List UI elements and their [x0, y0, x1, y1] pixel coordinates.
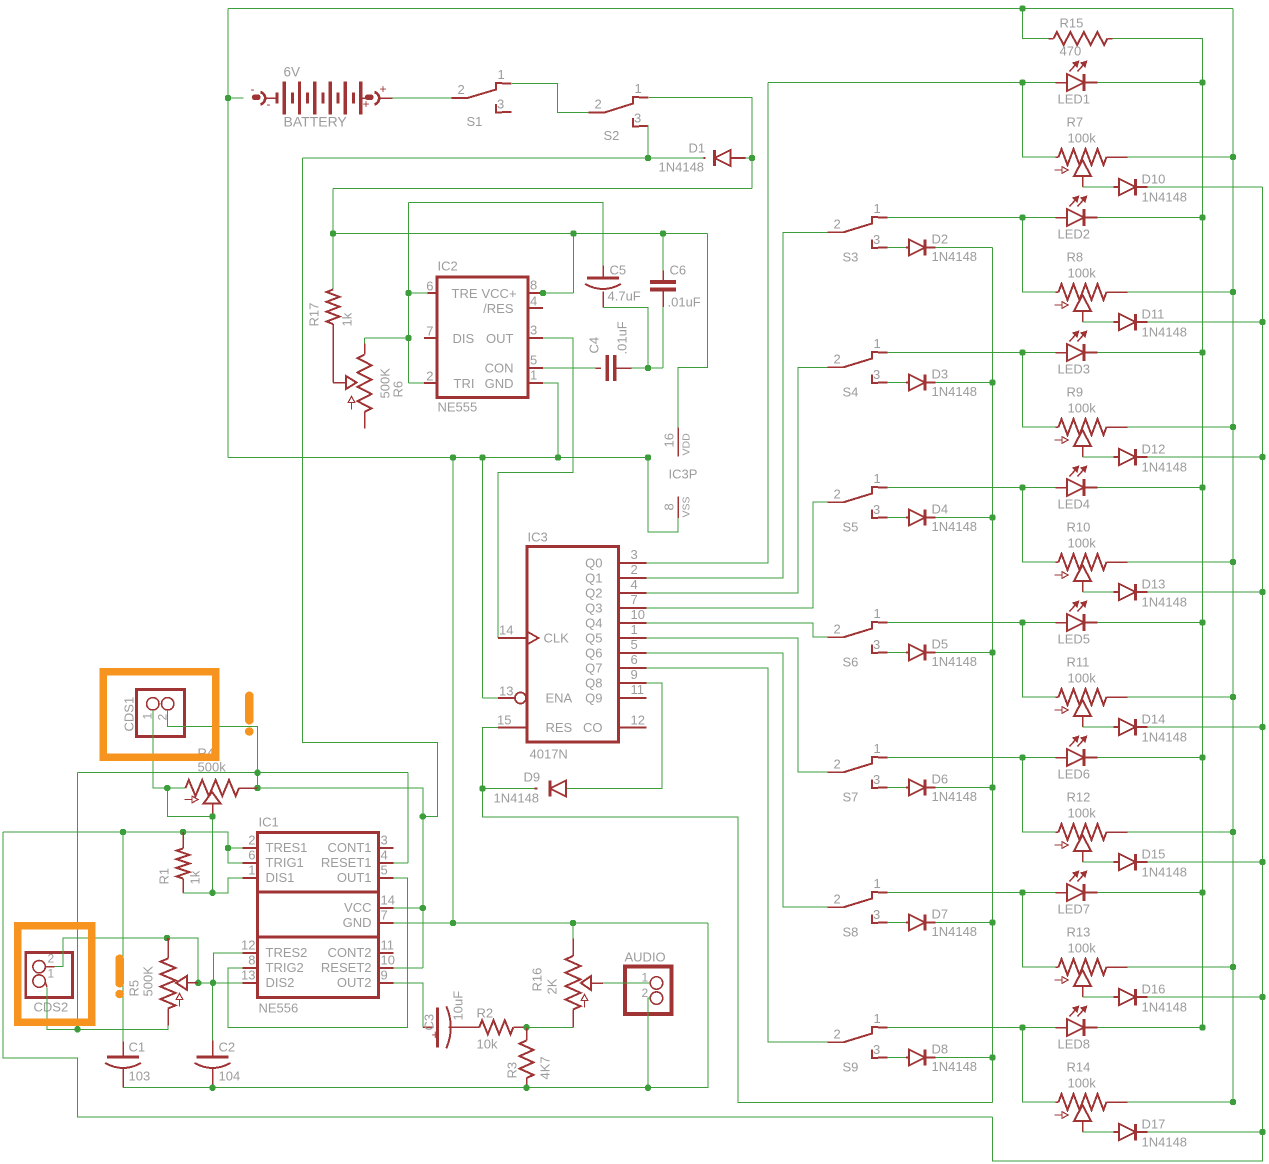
svg-text:TRI: TRI — [454, 376, 475, 391]
wire x408 IC2 left pins feed — [408, 203, 410, 384]
svg-text:12: 12 — [631, 713, 645, 728]
svg-text:CON: CON — [485, 361, 514, 376]
svg-text:D7: D7 — [932, 907, 949, 922]
svg-text:8: 8 — [662, 503, 677, 510]
wire battery plus to S1 — [393, 97, 452, 99]
svg-text:3: 3 — [497, 97, 504, 112]
wire pot R14 loop — [1023, 1028, 1056, 1103]
svg-text:S6: S6 — [843, 655, 859, 670]
highlight box CDS1 — [103, 672, 216, 758]
svg-text:-: - — [267, 97, 271, 111]
svg-text:CONT1: CONT1 — [327, 840, 371, 855]
svg-text:4017N: 4017N — [530, 747, 568, 762]
LED LED4 — [1067, 479, 1084, 496]
svg-text:D3: D3 — [932, 367, 949, 382]
svg-text:D2: D2 — [932, 232, 949, 247]
diode D17 1N4148 — [1114, 1131, 1120, 1133]
svg-text:AUDIO: AUDIO — [625, 950, 666, 965]
wire LED4 row — [888, 487, 1023, 489]
svg-text:OUT2: OUT2 — [337, 975, 372, 990]
svg-text:1N4148: 1N4148 — [1142, 460, 1188, 475]
svg-text:3: 3 — [873, 772, 880, 787]
diode D10 1N4148 — [1114, 186, 1120, 188]
capacitor C5 4.7uF — [602, 203, 604, 266]
svg-text:LED1: LED1 — [1058, 92, 1091, 107]
svg-text:CLK: CLK — [544, 631, 570, 646]
svg-text:100k: 100k — [1068, 1076, 1097, 1091]
svg-text:+: + — [380, 82, 387, 96]
svg-text:Q9: Q9 — [585, 691, 602, 706]
svg-text:CONT2: CONT2 — [327, 945, 371, 960]
wire minus rail x1232 — [1232, 9, 1234, 1103]
wire LED1 feed y82 — [768, 82, 1023, 84]
svg-text:4: 4 — [381, 848, 388, 863]
svg-text:R9: R9 — [1067, 385, 1084, 400]
capacitor C4 .01uF — [605, 355, 609, 381]
diode D5 1N4148 — [888, 652, 907, 654]
wire Q7 to S9 — [647, 668, 828, 1042]
svg-text:IC3: IC3 — [528, 530, 548, 545]
svg-text:+: + — [363, 97, 370, 111]
svg-text:9: 9 — [381, 968, 388, 983]
diode D8 1N4148 — [888, 1057, 907, 1059]
diode D6 1N4148 — [888, 787, 907, 789]
svg-text:GND: GND — [343, 915, 372, 930]
LED LED5 — [1067, 614, 1084, 631]
diode D11 1N4148 — [1114, 321, 1120, 323]
wire IC2 pin6 — [409, 292, 428, 294]
wire RESET1 feed x407 — [407, 773, 409, 863]
wire RESET1 — [379, 862, 394, 864]
wire D1 bottom return y188 — [333, 188, 752, 190]
wire IC2 pin8 VCC — [528, 292, 540, 294]
svg-text:3: 3 — [873, 502, 880, 517]
wire cathode rail x1202 — [1202, 39, 1204, 1028]
svg-text:TRE: TRE — [452, 286, 478, 301]
svg-text:4.7uF: 4.7uF — [608, 289, 641, 304]
wire Q6 to S8 — [647, 653, 828, 907]
svg-text:6: 6 — [426, 279, 433, 294]
battery BATTERY 6V — [228, 97, 244, 99]
svg-text:GND: GND — [485, 376, 514, 391]
wire C2 from DIS2 node — [212, 983, 214, 1041]
wire tap to D15 — [1082, 851, 1084, 862]
wire DIS2 line — [243, 982, 258, 984]
svg-text:2: 2 — [834, 756, 841, 771]
switch S2 — [589, 112, 605, 114]
svg-text:D12: D12 — [1142, 442, 1166, 457]
wire LED1 row — [1019, 79, 1025, 85]
svg-text:1: 1 — [642, 971, 649, 985]
svg-text:1: 1 — [48, 967, 55, 981]
wire IC2 pin2 — [409, 382, 425, 384]
svg-text:S9: S9 — [843, 1060, 859, 1075]
wire pot R7 loop — [1023, 83, 1056, 158]
wire diode return rail x1262 — [993, 187, 1263, 1161]
wire LED6 row — [888, 757, 1023, 759]
wire pot R10 loop — [1023, 488, 1056, 563]
svg-text:9: 9 — [631, 667, 638, 682]
svg-text:/RES: /RES — [483, 301, 514, 316]
diode D7 1N4148 — [888, 922, 907, 924]
svg-text:1N4148: 1N4148 — [932, 789, 978, 804]
svg-text:1N4148: 1N4148 — [932, 924, 978, 939]
svg-text:1: 1 — [631, 622, 638, 637]
svg-text:3: 3 — [873, 1042, 880, 1057]
svg-text:NE555: NE555 — [438, 400, 478, 415]
wire CDS1 pin1 down — [153, 710, 168, 788]
svg-text:R14: R14 — [1067, 1060, 1091, 1075]
svg-text:1N4148: 1N4148 — [1142, 1135, 1188, 1150]
svg-text:1N4148: 1N4148 — [659, 160, 705, 175]
trimmer R10 100k — [1056, 561, 1059, 563]
svg-text:C6: C6 — [670, 263, 687, 278]
wire IC2 pin1 GND down to rail — [528, 382, 543, 384]
svg-text:10: 10 — [631, 607, 645, 622]
wire VCC rail y233 — [332, 189, 334, 290]
switch S8 — [828, 906, 844, 908]
svg-text:C3: C3 — [422, 1014, 437, 1031]
wire IC2 pin5 CON via C4 — [528, 367, 543, 369]
svg-text:1N4148: 1N4148 — [932, 519, 978, 534]
wire R5 bottom / CDS2 pin1 — [167, 1009, 169, 1026]
svg-text:D4: D4 — [932, 502, 949, 517]
svg-text:Q5: Q5 — [585, 631, 602, 646]
wire Q8 loop to D9 — [567, 683, 663, 789]
svg-text:OUT: OUT — [486, 331, 514, 346]
resistor R3 4K7 — [526, 1027, 528, 1040]
svg-text:7: 7 — [381, 908, 388, 923]
svg-text:D17: D17 — [1142, 1117, 1166, 1132]
diode D2 1N4148 — [888, 247, 907, 249]
wire VCC pin14 — [379, 907, 394, 909]
svg-text:1k: 1k — [340, 312, 355, 326]
svg-text:15: 15 — [497, 713, 511, 728]
svg-text:500k: 500k — [198, 760, 227, 775]
wire CDS1 pin2 net y772 — [78, 772, 409, 774]
wire AUDIO pin2 down — [648, 998, 650, 1088]
capacitor C2 104 — [197, 1056, 229, 1059]
wire x77 down to CDS2 area — [77, 773, 79, 1030]
wire left border down to GND rail — [227, 9, 229, 458]
diode D9 1N4148 — [479, 785, 485, 791]
trimmer R6 500k — [346, 376, 357, 389]
svg-text:RESET2: RESET2 — [321, 960, 372, 975]
svg-text:LED8: LED8 — [1058, 1037, 1091, 1052]
svg-text:1: 1 — [874, 606, 881, 621]
wire GND pin7 — [379, 922, 394, 924]
wire VCC x422 down — [422, 817, 424, 968]
svg-text:VCC: VCC — [344, 900, 371, 915]
switch S4 — [828, 366, 844, 368]
wire R4 tap down — [212, 804, 214, 817]
pin CONT1 stub — [379, 847, 394, 849]
svg-text:1: 1 — [498, 67, 505, 82]
svg-text:100k: 100k — [1068, 941, 1097, 956]
wire OUT1 down to TRIG2 loop — [379, 877, 394, 879]
svg-text:D11: D11 — [1142, 307, 1165, 322]
diode D14 1N4148 — [1114, 726, 1120, 728]
svg-text:.01uF: .01uF — [615, 321, 630, 354]
wire Q2 to S4 — [647, 367, 828, 593]
svg-text:11: 11 — [381, 938, 395, 953]
wire RES net down to x737 loop — [483, 789, 993, 1103]
svg-text:R6: R6 — [391, 381, 406, 398]
wire Q4 to S6 — [647, 623, 828, 637]
svg-text:VDD: VDD — [681, 433, 693, 456]
svg-text:3: 3 — [530, 323, 537, 338]
switch S5 — [828, 501, 844, 503]
svg-text:3: 3 — [873, 907, 880, 922]
svg-text:1: 1 — [530, 368, 537, 383]
trimmer R12 100k — [1056, 831, 1059, 833]
svg-text:3: 3 — [634, 111, 641, 126]
diode D1 1N4148 — [704, 157, 706, 159]
trimmer R16 2k — [572, 923, 574, 939]
svg-text:100k: 100k — [1068, 671, 1097, 686]
svg-text:CDS1: CDS1 — [122, 697, 137, 732]
svg-text:1: 1 — [874, 1011, 881, 1026]
wire pot R13 loop — [1023, 893, 1056, 968]
svg-text:11: 11 — [631, 682, 645, 697]
svg-text:2: 2 — [248, 833, 255, 848]
diode D16 1N4148 — [1114, 996, 1120, 998]
svg-text:6: 6 — [631, 652, 638, 667]
svg-text:D8: D8 — [932, 1042, 949, 1057]
capacitor C3 10uF — [423, 1026, 434, 1028]
svg-text:2: 2 — [834, 1026, 841, 1041]
svg-text:1N4148: 1N4148 — [1142, 595, 1188, 610]
svg-text:470: 470 — [1060, 44, 1082, 59]
svg-text:4: 4 — [530, 294, 537, 309]
svg-text:1N4148: 1N4148 — [932, 249, 978, 264]
wire R4 right to VCC node — [258, 788, 423, 817]
switch S3 — [828, 231, 844, 233]
trimmer R5 500k — [167, 938, 168, 941]
svg-text:1: 1 — [635, 81, 642, 96]
svg-text:14: 14 — [499, 623, 513, 638]
wire pot R12 loop — [1023, 758, 1056, 833]
svg-text:2K: 2K — [545, 978, 560, 994]
svg-text:4K7: 4K7 — [538, 1056, 553, 1079]
wire pot R11 loop — [1023, 623, 1056, 698]
svg-text:8: 8 — [248, 953, 255, 968]
svg-text:10uF: 10uF — [451, 991, 466, 1021]
pin IC3 CLK — [527, 632, 539, 645]
wire LED2 row — [888, 217, 1023, 219]
svg-text:2: 2 — [834, 351, 841, 366]
diode D4 1N4148 — [888, 517, 907, 519]
wire inner rect y202 — [409, 202, 604, 204]
svg-text:1: 1 — [248, 863, 255, 878]
switch S6 — [828, 636, 844, 638]
svg-text:R5: R5 — [127, 980, 142, 997]
svg-text:R1: R1 — [157, 868, 172, 885]
switch S9 — [828, 1041, 844, 1043]
svg-text:R13: R13 — [1067, 925, 1091, 940]
op IC1 NE556 box — [258, 833, 379, 998]
svg-text:S3: S3 — [843, 250, 859, 265]
resistor R15 470 — [1023, 9, 1049, 39]
svg-text:R2: R2 — [477, 1006, 494, 1021]
svg-text:DIS2: DIS2 — [266, 975, 295, 990]
wire R16 wiper to AUDIO pin1 — [603, 982, 650, 984]
svg-text:Q2: Q2 — [585, 586, 602, 601]
svg-text:14: 14 — [381, 893, 395, 908]
svg-text:103: 103 — [129, 1069, 151, 1084]
svg-text:R7: R7 — [1067, 115, 1084, 130]
svg-text:DIS: DIS — [453, 331, 475, 346]
svg-text:.01uF: .01uF — [668, 295, 701, 310]
svg-text:8: 8 — [530, 278, 537, 293]
svg-text:12: 12 — [241, 938, 255, 953]
svg-text:-: - — [251, 82, 255, 96]
svg-text:Q6: Q6 — [585, 646, 602, 661]
svg-text:6: 6 — [248, 848, 255, 863]
svg-text:6V: 6V — [284, 65, 301, 80]
connector CDS2 — [26, 953, 73, 998]
svg-text:13: 13 — [241, 968, 255, 983]
node battery junction — [225, 95, 231, 101]
wire ENA feed from rail — [482, 458, 484, 699]
connector CDS1 — [137, 690, 185, 737]
svg-text:1N4148: 1N4148 — [1142, 325, 1188, 340]
wire diode bus x992 — [992, 248, 994, 1103]
connector AUDIO — [625, 967, 672, 1015]
svg-text:LED6: LED6 — [1058, 767, 1091, 782]
svg-text:1k: 1k — [188, 870, 203, 884]
resistor R2 10k — [479, 1020, 513, 1034]
svg-text:IC1: IC1 — [259, 815, 279, 830]
svg-text:16: 16 — [662, 433, 677, 447]
wire Q0 to LED1 row — [647, 83, 769, 564]
trimmer R7 100k — [1056, 156, 1059, 158]
svg-text:LED2: LED2 — [1058, 227, 1091, 242]
svg-text:2: 2 — [426, 369, 433, 384]
wire LED8 row — [888, 1027, 1023, 1029]
svg-text:2: 2 — [834, 891, 841, 906]
svg-text:D5: D5 — [932, 637, 949, 652]
svg-text:R17: R17 — [307, 303, 322, 327]
svg-text:RES: RES — [546, 720, 573, 735]
svg-text:1: 1 — [874, 336, 881, 351]
svg-text:R11: R11 — [1067, 655, 1090, 670]
wire x302 long loop to R4 area — [303, 158, 438, 817]
svg-text:S8: S8 — [843, 925, 859, 940]
svg-text:D6: D6 — [932, 772, 949, 787]
resistor R1 1k — [182, 832, 184, 849]
svg-text:R15: R15 — [1060, 16, 1084, 31]
svg-text:C5: C5 — [610, 263, 627, 278]
svg-text:Q7: Q7 — [585, 661, 602, 676]
wire R2 node to R16 — [527, 1026, 574, 1028]
diode D12 1N4148 — [1114, 456, 1120, 458]
switch S7 — [828, 771, 844, 773]
LED LED1 — [1067, 74, 1084, 91]
svg-text:D14: D14 — [1142, 712, 1166, 727]
svg-text:DIS1: DIS1 — [266, 870, 295, 885]
wire pot R8 loop — [1023, 218, 1056, 293]
svg-text:CDS2: CDS2 — [34, 1000, 69, 1015]
svg-text:S7: S7 — [843, 790, 859, 805]
wire OUT2 to C3 — [379, 982, 394, 984]
svg-text:2: 2 — [458, 82, 465, 97]
svg-text:TRIG1: TRIG1 — [266, 855, 304, 870]
pin CONT2 stub — [379, 952, 394, 954]
svg-text:C2: C2 — [219, 1040, 236, 1055]
svg-text:10: 10 — [381, 953, 395, 968]
svg-text:R3: R3 — [505, 1062, 520, 1079]
wire pot R9 loop — [1023, 353, 1056, 428]
svg-text:100k: 100k — [1068, 401, 1097, 416]
svg-text:S4: S4 — [843, 385, 859, 400]
wire TRES2 down to DIS2 node — [243, 952, 258, 954]
svg-text:Q8: Q8 — [585, 676, 602, 691]
svg-text:1: 1 — [874, 201, 881, 216]
svg-text:1N4148: 1N4148 — [932, 384, 978, 399]
svg-text:2: 2 — [834, 216, 841, 231]
diode D15 1N4148 — [1114, 861, 1120, 863]
svg-text:1N4148: 1N4148 — [494, 791, 540, 806]
wire RESET2 — [379, 967, 394, 969]
pin IC2 pin4 /RES stub — [528, 307, 543, 309]
svg-text:10k: 10k — [477, 1037, 498, 1052]
wire tap to D12 — [1082, 446, 1084, 457]
svg-text:4: 4 — [631, 577, 638, 592]
wire tap to D13 — [1082, 581, 1084, 592]
svg-text:2: 2 — [642, 986, 649, 1000]
resistor R17 1k — [327, 290, 340, 325]
svg-text:5: 5 — [530, 353, 537, 368]
svg-text:OUT1: OUT1 — [337, 870, 372, 885]
svg-text:ENA: ENA — [546, 691, 573, 706]
svg-text:1: 1 — [874, 471, 881, 486]
trimmer R11 100k — [1056, 696, 1059, 698]
svg-text:100k: 100k — [1068, 536, 1097, 551]
wire DIS1 — [213, 878, 243, 893]
svg-text:1N4148: 1N4148 — [1142, 190, 1188, 205]
wire S2 pin3 down to D1 line — [647, 125, 649, 158]
wire GND rail y457 — [228, 457, 648, 459]
svg-text:3: 3 — [873, 637, 880, 652]
svg-text:1: 1 — [874, 876, 881, 891]
svg-text:BATTERY: BATTERY — [284, 114, 348, 130]
svg-text:Q4: Q4 — [585, 616, 602, 631]
wire IC2 pin7 — [424, 337, 437, 339]
svg-text:D1: D1 — [689, 141, 706, 156]
svg-text:5: 5 — [381, 863, 388, 878]
svg-text:IC2: IC2 — [438, 259, 458, 274]
svg-text:1N4148: 1N4148 — [1142, 730, 1188, 745]
svg-text:104: 104 — [219, 1069, 241, 1084]
svg-text:D15: D15 — [1142, 847, 1166, 862]
power IC3P VDD pin 16 — [677, 428, 679, 457]
wire Q3 to S5 — [647, 502, 828, 608]
wire TRES1/TRIG1 feed — [228, 847, 243, 849]
capacitor C1 103 — [122, 832, 124, 1042]
svg-text:1N4148: 1N4148 — [932, 654, 978, 669]
svg-text:C1: C1 — [129, 1040, 146, 1055]
wire Q1 to S3 — [647, 233, 828, 579]
trimmer R14 100k — [1056, 1101, 1059, 1103]
wire LED3 row — [888, 352, 1023, 354]
wire S1 pin1 to S2 pin2 — [512, 84, 589, 113]
wire top border (battery minus rail) — [228, 8, 1233, 10]
wire return line y1116 — [3, 832, 993, 1117]
svg-text:2: 2 — [834, 486, 841, 501]
svg-text:Q1: Q1 — [585, 571, 602, 586]
svg-text:3: 3 — [873, 232, 880, 247]
